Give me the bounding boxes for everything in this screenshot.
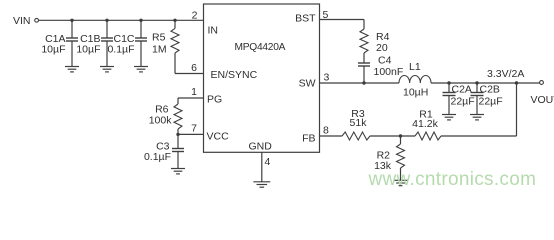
net label 3.3V/2A xyxy=(487,68,524,80)
svg-text:22µF: 22µF xyxy=(479,96,503,108)
pin number 7 xyxy=(191,123,197,135)
label R2 xyxy=(377,150,391,162)
svg-text:VOUT: VOUT xyxy=(531,94,554,106)
IC name MPQ4420A xyxy=(235,42,286,53)
value 13k (R2) xyxy=(374,160,392,172)
ground under C1C xyxy=(134,67,148,72)
capacitor C2A xyxy=(443,83,456,115)
op-amp U1 MPQ4420A body xyxy=(204,4,320,152)
label C1C xyxy=(113,33,134,45)
ground under C2B xyxy=(470,115,484,120)
value 41.2k (R1) xyxy=(412,118,438,130)
svg-text:5: 5 xyxy=(323,9,329,21)
wire BST pin 5 xyxy=(320,20,365,30)
junction rail-C1B xyxy=(105,19,108,22)
watermark www.cntronics.com xyxy=(368,169,537,190)
svg-text:8: 8 xyxy=(323,125,329,137)
node VOUT label xyxy=(531,94,554,106)
svg-text:1M: 1M xyxy=(152,44,167,56)
value 22µF (C2A) xyxy=(451,96,475,108)
svg-text:MPQ4420A: MPQ4420A xyxy=(235,42,286,53)
junction R6-C3-VCC xyxy=(176,133,179,136)
label C2A xyxy=(452,84,472,96)
svg-text:C2A: C2A xyxy=(452,84,472,96)
label C1B xyxy=(80,33,100,45)
value 100k (R6) xyxy=(149,115,173,127)
svg-text:EN/SYNC: EN/SYNC xyxy=(211,69,258,81)
wire R1 to output rail xyxy=(441,83,517,136)
svg-text:VIN: VIN xyxy=(13,15,31,27)
wire R5 to EN/SYNC pin 6 xyxy=(175,73,204,75)
ground under R2 xyxy=(394,180,408,185)
svg-text:2: 2 xyxy=(192,9,198,21)
svg-text:SW: SW xyxy=(299,78,316,90)
svg-text:41.2k: 41.2k xyxy=(412,118,438,130)
pin number 6 xyxy=(191,62,197,74)
svg-text:C4: C4 xyxy=(378,55,392,67)
svg-text:10µF: 10µF xyxy=(76,44,100,56)
svg-text:22µF: 22µF xyxy=(451,96,475,108)
pin label IN xyxy=(208,25,219,37)
value 22µF (C2B) xyxy=(479,96,503,108)
pin number 3 xyxy=(324,72,330,84)
svg-text:IN: IN xyxy=(208,25,219,37)
resistor R1 xyxy=(415,132,441,140)
label C4 xyxy=(378,55,392,67)
svg-text:L1: L1 xyxy=(409,61,421,73)
svg-text:BST: BST xyxy=(295,13,316,25)
value 0.1µF (C3) xyxy=(144,151,171,163)
junction rail-R5 xyxy=(173,19,176,22)
svg-text:6: 6 xyxy=(191,62,197,74)
value 10µF (C1A) xyxy=(41,44,65,56)
pin number 8 xyxy=(323,125,329,137)
node VIN label xyxy=(13,15,31,27)
svg-text:0.1µF: 0.1µF xyxy=(107,44,134,56)
ground under C1B xyxy=(100,67,114,72)
capacitor C4 xyxy=(358,63,370,83)
svg-text:10µH: 10µH xyxy=(403,87,428,99)
value 100nF (C4) xyxy=(374,66,404,78)
svg-text:10µF: 10µF xyxy=(41,44,65,56)
label R4 xyxy=(376,31,390,43)
svg-text:R5: R5 xyxy=(152,32,166,44)
ground under IC GND xyxy=(253,182,270,187)
label C1A xyxy=(45,33,65,45)
junction rail-C2B xyxy=(475,81,478,84)
svg-text:C2B: C2B xyxy=(480,84,500,96)
wire VIN rail to IN pin xyxy=(39,19,204,21)
junction rail-C2A xyxy=(447,81,450,84)
capacitor C1B xyxy=(101,20,113,66)
pin label PG xyxy=(207,94,222,106)
junction C4-SW xyxy=(362,81,365,84)
pin label BST xyxy=(295,13,316,25)
junction rail-feedback xyxy=(515,81,518,84)
capacitor C1A xyxy=(66,20,78,66)
input terminal VIN xyxy=(35,18,39,22)
svg-text:FB: FB xyxy=(302,133,315,145)
wire GND pin 4 xyxy=(261,152,263,182)
wire FB pin 8 to R3 xyxy=(320,135,343,137)
ground under C2A xyxy=(442,115,456,120)
pin number 4 xyxy=(265,156,271,168)
value 10µF (C1B) xyxy=(76,44,100,56)
svg-text:0.1µF: 0.1µF xyxy=(144,151,171,163)
value 1M (R5) xyxy=(152,44,167,56)
capacitor C2B xyxy=(471,83,484,115)
output terminal VOUT xyxy=(540,81,544,85)
pin label VCC xyxy=(207,131,230,143)
label C3 xyxy=(156,141,170,153)
label R5 xyxy=(152,32,166,44)
svg-text:100k: 100k xyxy=(149,115,173,127)
label R3 xyxy=(351,108,365,120)
value 0.1µF (C1C) xyxy=(107,44,134,56)
svg-text:100nF: 100nF xyxy=(374,66,404,78)
junction rail-C1C xyxy=(139,19,142,22)
label R6 xyxy=(155,104,169,116)
svg-text:51k: 51k xyxy=(350,117,368,129)
wire VCC pin 7 xyxy=(178,133,204,135)
wire L1 to VOUT xyxy=(431,82,540,84)
capacitor C1C xyxy=(135,20,147,66)
label L1 xyxy=(409,61,421,73)
svg-text:4: 4 xyxy=(265,156,271,168)
svg-text:GND: GND xyxy=(249,141,273,153)
label R1 xyxy=(419,109,433,121)
pin label SW xyxy=(299,78,316,90)
pin label FB xyxy=(302,133,315,145)
svg-text:3: 3 xyxy=(324,72,330,84)
capacitor C3 xyxy=(172,134,184,168)
resistor R4 xyxy=(360,29,368,63)
pin number 1 xyxy=(191,86,197,98)
svg-text:7: 7 xyxy=(191,123,197,135)
wire SW pin 3 to L1 xyxy=(320,82,400,84)
resistor R3 xyxy=(342,132,370,140)
value 20 (R4) xyxy=(376,42,388,54)
svg-text:1: 1 xyxy=(191,86,197,98)
value 10µH (L1) xyxy=(403,87,428,99)
ground under C1A xyxy=(65,67,79,72)
pin label GND xyxy=(249,141,273,153)
value 51k (R3) xyxy=(350,117,368,129)
svg-text:www.cntronics.com: www.cntronics.com xyxy=(368,169,537,190)
pin number 5 xyxy=(323,9,329,21)
svg-text:20: 20 xyxy=(376,42,388,54)
inductor L1 xyxy=(399,75,431,83)
wire PG pin 1 to R6 xyxy=(178,97,204,99)
junction rail-C1A xyxy=(70,19,73,22)
svg-text:VCC: VCC xyxy=(207,131,230,143)
junction R3-R2-R1 xyxy=(399,134,402,137)
wire R3 to R1 xyxy=(370,135,415,137)
svg-text:3.3V/2A: 3.3V/2A xyxy=(487,68,524,80)
ground under C3 xyxy=(171,169,185,174)
resistor R6 xyxy=(174,98,182,134)
resistor R5 xyxy=(171,20,179,73)
resistor R2 xyxy=(397,136,405,180)
pin number 2 xyxy=(192,9,198,21)
pin label EN/SYNC xyxy=(211,69,258,81)
label C2B xyxy=(480,84,500,96)
svg-text:PG: PG xyxy=(207,94,222,106)
